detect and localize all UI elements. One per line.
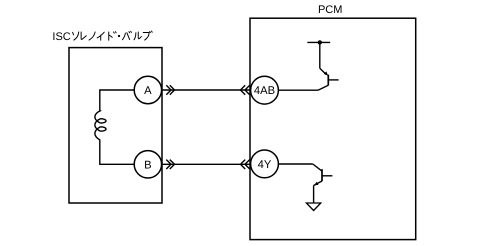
svg-text:B: B <box>144 159 151 171</box>
svg-text:4AB: 4AB <box>254 85 275 97</box>
svg-text:PCM: PCM <box>318 4 342 16</box>
svg-text:4Y: 4Y <box>258 159 272 171</box>
svg-text:A: A <box>144 85 152 97</box>
svg-text:ISC: ISC <box>52 31 70 43</box>
